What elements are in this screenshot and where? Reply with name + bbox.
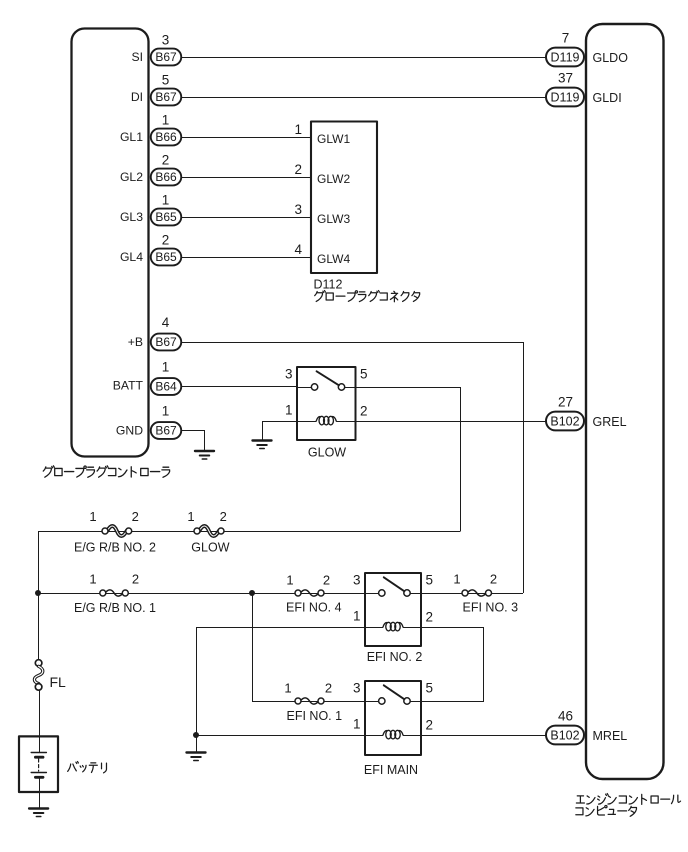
svg-text:MREL: MREL bbox=[593, 729, 628, 743]
svg-text:1: 1 bbox=[162, 192, 170, 207]
svg-text:D119: D119 bbox=[551, 50, 580, 64]
svg-text:2: 2 bbox=[426, 718, 434, 733]
svg-text:3: 3 bbox=[285, 367, 293, 382]
svg-text:1: 1 bbox=[286, 572, 293, 587]
svg-text:DI: DI bbox=[131, 90, 143, 104]
svg-text:3: 3 bbox=[294, 202, 302, 217]
svg-text:GLOW: GLOW bbox=[308, 446, 346, 460]
svg-text:5: 5 bbox=[162, 72, 170, 87]
svg-text:B66: B66 bbox=[155, 130, 177, 144]
svg-text:B65: B65 bbox=[155, 250, 177, 264]
svg-text:GLDI: GLDI bbox=[593, 91, 622, 105]
svg-text:37: 37 bbox=[558, 71, 573, 86]
svg-text:1: 1 bbox=[453, 572, 460, 587]
svg-text:27: 27 bbox=[558, 395, 573, 410]
svg-text:FL: FL bbox=[50, 674, 67, 690]
svg-text:1: 1 bbox=[353, 609, 361, 624]
svg-text:EFI NO. 2: EFI NO. 2 bbox=[367, 650, 423, 664]
svg-text:2: 2 bbox=[490, 572, 497, 587]
svg-text:GLW1: GLW1 bbox=[317, 132, 350, 146]
svg-text:GL3: GL3 bbox=[120, 210, 143, 224]
svg-text:GREL: GREL bbox=[593, 415, 627, 429]
svg-text:4: 4 bbox=[294, 242, 302, 257]
svg-text:2: 2 bbox=[132, 509, 139, 524]
svg-text:2: 2 bbox=[132, 572, 139, 587]
svg-text:46: 46 bbox=[558, 709, 573, 724]
svg-text:3: 3 bbox=[162, 32, 170, 47]
svg-text:B67: B67 bbox=[155, 50, 177, 64]
svg-text:B65: B65 bbox=[155, 210, 177, 224]
svg-text:5: 5 bbox=[426, 681, 434, 696]
svg-text:GL4: GL4 bbox=[120, 250, 143, 264]
svg-text:2: 2 bbox=[323, 572, 330, 587]
svg-text:5: 5 bbox=[360, 367, 368, 382]
svg-text:D112: D112 bbox=[314, 278, 343, 292]
svg-text:EFI NO. 4: EFI NO. 4 bbox=[286, 601, 342, 615]
svg-text:B64: B64 bbox=[155, 380, 177, 394]
svg-text:2: 2 bbox=[426, 610, 434, 625]
svg-text:GLOW: GLOW bbox=[191, 541, 229, 555]
svg-text:E/G R/B NO. 1: E/G R/B NO. 1 bbox=[74, 601, 156, 615]
svg-text:EFI NO. 3: EFI NO. 3 bbox=[463, 600, 519, 614]
svg-text:1: 1 bbox=[187, 509, 194, 524]
svg-text:1: 1 bbox=[89, 509, 96, 524]
svg-text:EFI NO. 1: EFI NO. 1 bbox=[287, 709, 343, 723]
svg-text:B67: B67 bbox=[155, 424, 177, 438]
svg-text:1: 1 bbox=[353, 717, 361, 732]
svg-text:1: 1 bbox=[294, 122, 302, 137]
svg-text:B67: B67 bbox=[155, 90, 177, 104]
svg-text:SI: SI bbox=[131, 50, 143, 64]
svg-text:2: 2 bbox=[294, 162, 302, 177]
svg-text:1: 1 bbox=[162, 360, 170, 375]
svg-text:3: 3 bbox=[353, 681, 361, 696]
svg-text:3: 3 bbox=[353, 573, 361, 588]
svg-text:5: 5 bbox=[426, 573, 434, 588]
svg-text:2: 2 bbox=[325, 681, 332, 696]
svg-text:7: 7 bbox=[562, 31, 570, 46]
svg-text:GL1: GL1 bbox=[120, 130, 143, 144]
svg-text:GL2: GL2 bbox=[120, 170, 143, 184]
svg-text:1: 1 bbox=[162, 112, 170, 127]
svg-text:2: 2 bbox=[162, 152, 170, 167]
svg-text:EFI MAIN: EFI MAIN bbox=[364, 763, 418, 777]
svg-text:GLDO: GLDO bbox=[593, 51, 629, 65]
svg-text:B102: B102 bbox=[550, 728, 579, 742]
svg-text:4: 4 bbox=[162, 315, 170, 330]
svg-text:GLW4: GLW4 bbox=[317, 252, 350, 266]
svg-text:B66: B66 bbox=[155, 170, 177, 184]
svg-text:1: 1 bbox=[284, 681, 291, 696]
svg-text:+B: +B bbox=[128, 335, 143, 349]
svg-text:B102: B102 bbox=[550, 414, 579, 428]
svg-text:B67: B67 bbox=[155, 335, 177, 349]
svg-text:2: 2 bbox=[162, 232, 170, 247]
svg-text:1: 1 bbox=[162, 404, 170, 419]
svg-text:BATT: BATT bbox=[113, 378, 144, 392]
svg-text:D119: D119 bbox=[551, 90, 580, 104]
svg-text:E/G R/B NO. 2: E/G R/B NO. 2 bbox=[74, 540, 156, 554]
svg-text:2: 2 bbox=[220, 509, 227, 524]
svg-text:1: 1 bbox=[89, 572, 96, 587]
svg-text:2: 2 bbox=[360, 404, 368, 419]
svg-text:1: 1 bbox=[285, 403, 293, 418]
svg-text:GLW3: GLW3 bbox=[317, 212, 350, 226]
svg-text:GLW2: GLW2 bbox=[317, 172, 350, 186]
svg-text:GND: GND bbox=[116, 424, 143, 438]
